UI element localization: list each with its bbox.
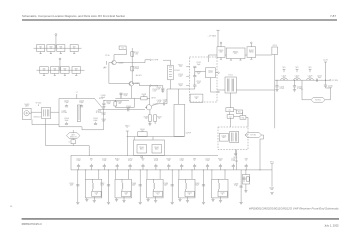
- wire injection feed vertical: [274, 55, 276, 129]
- wire RF input to Q1421 base: [104, 99, 130, 101]
- wire FL1402 input: [177, 89, 179, 104]
- resistor R1601: [217, 47, 225, 58]
- crystal Y1511: [206, 68, 216, 78]
- svg-text:45.1: 45.1: [234, 53, 237, 55]
- svg-text:27pF: 27pF: [157, 89, 161, 91]
- ground C1461: [76, 201, 79, 203]
- ground CR1474: [187, 197, 189, 201]
- svg-text:150: 150: [179, 66, 182, 68]
- ground Q1431 emitter: [149, 121, 151, 123]
- capacitor C1409: [98, 109, 145, 111]
- node B+ stub 5T: [76, 94, 78, 99]
- svg-text:360: 360: [309, 77, 312, 79]
- svg-text:5T: 5T: [189, 194, 191, 196]
- svg-text:8pF: 8pF: [318, 77, 321, 79]
- wire bus to L1475: [211, 170, 213, 179]
- svg-text:T1511: T1511: [228, 75, 233, 77]
- filter FL1541: [230, 132, 239, 143]
- resistor R1426: [134, 97, 141, 99]
- svg-text:NP: NP: [195, 98, 197, 100]
- ground L1474 left: [179, 198, 181, 199]
- svg-text:5T: 5T: [91, 160, 93, 162]
- svg-text:B401: B401: [140, 148, 144, 150]
- transistor Q1422: [112, 60, 116, 64]
- svg-text:0.1uF: 0.1uF: [153, 90, 157, 92]
- svg-text:0.1uF: 0.1uF: [128, 160, 132, 162]
- svg-text:NP13: NP13: [273, 45, 277, 47]
- resonator section L1475: [212, 179, 229, 198]
- inductor L1474: [185, 179, 187, 183]
- svg-text:11: 11: [60, 48, 62, 50]
- wire injection to T1511: [236, 89, 274, 91]
- wire bias ticks: [133, 137, 135, 140]
- wire mixer cluster: [230, 102, 232, 108]
- svg-text:5T: 5T: [96, 194, 98, 196]
- ground M1585: [270, 192, 273, 194]
- ANT SWITCH callout: [66, 133, 80, 139]
- bias network module outline: [134, 140, 165, 156]
- net RX INJ callout right: [311, 97, 325, 102]
- wire bus to L1473: [146, 170, 148, 179]
- shield SH1104: [70, 45, 78, 52]
- svg-text:15pF: 15pF: [179, 85, 183, 87]
- header rule: [22, 19, 337, 21]
- wire J1401 shell ground: [31, 120, 33, 125]
- transistor Q1421: [129, 81, 134, 86]
- svg-text:R41: R41: [238, 112, 241, 114]
- wire FL1401 input: [170, 60, 172, 65]
- ground mixer: [235, 150, 237, 154]
- wire shield row A: [34, 47, 82, 49]
- ground L1475 left: [212, 198, 214, 199]
- svg-text:NIB10: NIB10: [249, 52, 254, 54]
- resistor R1444: [138, 132, 147, 136]
- svg-text:1K: 1K: [143, 95, 145, 97]
- varactor CR1474: [185, 191, 194, 196]
- RX front-end matching network outline: [59, 99, 104, 130]
- node junction diamond: [301, 88, 303, 90]
- net RX INJ callout mixer: [245, 132, 262, 137]
- resistor R1542: [240, 116, 246, 120]
- svg-text:ANT: ANT: [25, 105, 28, 108]
- ground CR1475: [220, 197, 222, 201]
- svg-text:8.2pF: 8.2pF: [79, 102, 83, 104]
- capacitor C1542: [227, 115, 234, 119]
- wire Q1431 collector: [151, 104, 156, 106]
- svg-text:L2: L2: [69, 142, 71, 144]
- wire Q1421 emitter: [130, 86, 132, 98]
- svg-text:15pF: 15pF: [197, 83, 201, 85]
- svg-text:470: 470: [118, 103, 121, 105]
- capacitor C1541: [226, 108, 234, 112]
- svg-text:0.1uF: 0.1uF: [77, 160, 81, 162]
- svg-text:NIB: NIB: [271, 189, 274, 191]
- svg-text:47pF: 47pF: [102, 121, 106, 123]
- capacitor C1414: [119, 46, 126, 50]
- rail Q1421 collector: [149, 86, 151, 105]
- svg-text:5T: 5T: [142, 160, 144, 162]
- wire Q1431 output to FL: [166, 89, 168, 104]
- svg-text:5T: 5T: [222, 194, 224, 196]
- node stub above L1571: [283, 69, 285, 72]
- connector pin P1441: [141, 156, 143, 158]
- svg-text:5T: 5T: [194, 160, 196, 162]
- capacitor C1461: [77, 170, 79, 202]
- wire injection row: [225, 54, 226, 56]
- node E1601: [220, 44, 222, 47]
- wire emitter network: [115, 106, 134, 108]
- svg-text:27pF: 27pF: [124, 95, 128, 97]
- capacitor C1423: [131, 66, 134, 71]
- wire FL1401 output: [170, 80, 172, 89]
- svg-text:12: 12: [64, 70, 66, 72]
- svg-text:7.5pF: 7.5pF: [163, 101, 167, 103]
- capacitor C1583: [240, 170, 242, 202]
- resistor R1432: [154, 115, 157, 122]
- resistor R1431: [149, 110, 151, 115]
- svg-text:470pF: 470pF: [134, 68, 139, 70]
- svg-text:C14: C14: [121, 48, 124, 50]
- wire Q1422 base down: [109, 62, 112, 64]
- svg-text:7.5pF: 7.5pF: [64, 102, 68, 104]
- svg-text:0.1uF: 0.1uF: [206, 160, 210, 162]
- svg-text:DMG4017: DMG4017: [34, 117, 41, 119]
- wire CR1473 right: [159, 170, 161, 179]
- svg-text:0.1uF: 0.1uF: [102, 160, 106, 162]
- shield box Y1511 area: [190, 57, 218, 102]
- svg-text:5T: 5T: [126, 127, 128, 129]
- svg-text:1pF: 1pF: [197, 73, 200, 75]
- capacitor C1430: [163, 102, 165, 105]
- resistor R1603: [272, 47, 278, 55]
- svg-text:Q1421: Q1421: [135, 82, 140, 84]
- shield SH1107: [61, 67, 69, 74]
- node ANT_B stub with connector E1102: [59, 60, 61, 70]
- inductor L1472: [121, 179, 123, 183]
- ground L1472 left: [116, 198, 118, 199]
- shield SH1101: [37, 45, 45, 52]
- wire matching network to ANT SWITCH: [72, 130, 74, 133]
- node ANT_A stub with connector E1101: [55, 36, 57, 49]
- svg-text:C42: C42: [229, 116, 232, 118]
- inductor L1473: [153, 179, 155, 183]
- shield SH1103: [57, 45, 65, 52]
- svg-text:33pF: 33pF: [70, 185, 74, 187]
- svg-text:33pF: 33pF: [195, 185, 199, 187]
- wire Q1421 base wire: [109, 82, 129, 84]
- mixer U1541: [219, 133, 228, 141]
- wire callout left: [302, 99, 311, 101]
- svg-text:5T: 5T: [157, 194, 159, 196]
- wire T1511 secondary down: [230, 93, 232, 102]
- capacitor C1575 series: [316, 79, 318, 82]
- wire D1401 ground return: [45, 119, 47, 146]
- svg-text:0.1uF: 0.1uF: [231, 160, 235, 162]
- svg-text:360: 360: [283, 77, 286, 79]
- inductor L1572: [294, 78, 301, 80]
- svg-text:0.1uF: 0.1uF: [180, 160, 184, 162]
- wire shield row B: [37, 69, 85, 71]
- svg-text:68P81076C25-O: 68P81076C25-O: [22, 222, 42, 226]
- inductor L1475: [218, 179, 220, 183]
- wire L1581 to ground: [245, 184, 247, 190]
- node NP16 stub: [236, 150, 238, 170]
- svg-text:39pF: 39pF: [65, 120, 69, 122]
- svg-text:51K: 51K: [219, 160, 222, 162]
- svg-text:B402: B402: [155, 148, 159, 150]
- ground R1602: [250, 57, 252, 59]
- svg-text:7-87: 7-87: [330, 14, 336, 18]
- shield SH1105: [40, 67, 48, 74]
- svg-text:33pF: 33pF: [132, 185, 136, 187]
- capacitor C1420: [120, 93, 122, 99]
- svg-text:12: 12: [54, 70, 56, 72]
- resonator section L1473: [147, 179, 164, 198]
- wire riser to preselector bus: [88, 146, 90, 156]
- ground CR1471: [93, 197, 95, 201]
- svg-text:5T: 5T: [76, 92, 78, 94]
- ground L1473 left: [147, 198, 149, 199]
- svg-text:15pF: 15pF: [197, 64, 201, 66]
- varactor CR1473: [153, 191, 162, 196]
- svg-text:5T: 5T: [245, 160, 247, 162]
- inductor L1402: [77, 105, 80, 122]
- resistor R1421: [131, 52, 134, 57]
- wire CR1474 right: [191, 170, 193, 179]
- svg-text:July 1, 2002: July 1, 2002: [324, 224, 339, 228]
- capacitor C1463: [139, 170, 141, 202]
- shield SH1108: [72, 67, 80, 74]
- resonator section L1471: [85, 179, 102, 198]
- shield SH1106: [51, 67, 59, 74]
- wire varactor bias feed: [127, 136, 184, 138]
- wire callout to LO net: [262, 134, 264, 136]
- net port 2 diamond: [218, 91, 220, 93]
- capacitor C1465: [203, 170, 205, 202]
- ground CR1472: [123, 197, 125, 201]
- resonator section L1474: [179, 179, 196, 198]
- svg-text:FL1401: FL1401: [175, 70, 181, 72]
- svg-text:47pF: 47pF: [157, 102, 161, 104]
- wire Q1422 to net: [116, 62, 145, 64]
- wire top injection input: [209, 54, 218, 56]
- wire LO chain: [275, 79, 330, 81]
- resistor R1441: [137, 145, 147, 154]
- svg-text:SWITCH: SWITCH: [70, 136, 77, 138]
- svg-text:TO 9PH: TO 9PH: [152, 60, 159, 62]
- wire injection bottom: [259, 139, 261, 170]
- wire callout right: [325, 99, 331, 101]
- wire Q1431 base: [145, 106, 146, 108]
- ground C1464: [171, 201, 174, 203]
- capacitor C1573: [276, 79, 279, 82]
- capacitor C1464: [171, 170, 173, 202]
- inductor L1571: [281, 78, 288, 80]
- svg-text:B4: B4: [141, 130, 143, 132]
- svg-text:0.1uF: 0.1uF: [297, 88, 301, 90]
- ground C1463: [139, 201, 142, 203]
- svg-text:TO 9PH: TO 9PH: [332, 80, 339, 82]
- ground FL1601 stubs: [230, 59, 232, 61]
- ground L1471 left: [86, 198, 88, 199]
- resistor R1416: [114, 100, 116, 101]
- wire J1401 to D1401: [31, 111, 41, 113]
- svg-text:51K: 51K: [116, 160, 119, 162]
- wire shield left connections: [186, 66, 189, 68]
- svg-text:RX INJ: RX INJ: [315, 100, 321, 102]
- svg-text:0.1uF: 0.1uF: [280, 88, 284, 90]
- wire D1401 to matching network: [51, 111, 60, 113]
- svg-text:360: 360: [296, 77, 299, 79]
- svg-text:11: 11: [40, 48, 42, 50]
- wire T1511 left: [217, 89, 225, 91]
- wire Q1422 collector up: [113, 55, 115, 61]
- wire mixer to callout: [245, 134, 248, 136]
- ground L1581: [244, 190, 247, 192]
- wire ANT SWITCH to L1405: [72, 138, 74, 139]
- svg-text:12: 12: [43, 70, 45, 72]
- svg-text:1K: 1K: [158, 118, 160, 120]
- wire bus to L1472: [114, 170, 116, 179]
- wire CR1471 right: [98, 170, 100, 179]
- svg-text:47pF: 47pF: [127, 108, 131, 110]
- svg-text:11: 11: [50, 48, 52, 50]
- ground C1465: [202, 201, 205, 203]
- diode D1401 DMG4017 module: [42, 107, 51, 118]
- net TO 9PH upper: [150, 59, 152, 61]
- svg-text:NP10: NP10: [270, 162, 274, 164]
- wire bias rail to Q1421 collector: [132, 83, 133, 85]
- svg-text:33pF: 33pF: [164, 185, 168, 187]
- svg-text:27pF: 27pF: [234, 185, 238, 187]
- wire bus to L1471: [85, 170, 87, 179]
- wire CR1475 right: [224, 170, 226, 179]
- capacitor C1574: [293, 79, 296, 82]
- svg-text:150: 150: [145, 118, 148, 120]
- svg-text:27pF: 27pF: [107, 103, 111, 105]
- net TO 9PH right: [329, 79, 331, 81]
- node NP10 stub: [271, 164, 273, 187]
- ground C1583: [239, 201, 242, 203]
- node stub above L1572: [296, 69, 298, 72]
- svg-text:C41: C41: [228, 110, 231, 112]
- svg-text:6.8pF: 6.8pF: [93, 120, 97, 122]
- shield box mixer: [218, 127, 248, 150]
- svg-text:RX INJ: RX INJ: [250, 135, 256, 137]
- svg-text:5T9 B+: 5T9 B+: [105, 55, 110, 57]
- svg-text:11.11nH: 11.11nH: [61, 112, 68, 114]
- capacitor C1416: [102, 99, 105, 102]
- varactor CR1472: [122, 191, 131, 196]
- svg-text:R42: R42: [242, 117, 245, 119]
- wire bus to L1474: [178, 170, 180, 179]
- resonator section L1472: [115, 179, 132, 198]
- shield box FL1402: [174, 104, 185, 136]
- svg-text:NP5: NP5: [308, 67, 311, 69]
- node stub above L1573: [309, 69, 311, 72]
- bias rail: [131, 48, 133, 84]
- resistor R1541: [236, 110, 242, 113]
- node A+ stub: [325, 62, 327, 80]
- wire L1405 return to J1401: [72, 144, 74, 146]
- ground CR1473: [155, 197, 157, 201]
- node NP9 stub: [106, 61, 108, 65]
- inductor L1573: [307, 78, 314, 80]
- svg-text:9.1pF: 9.1pF: [102, 114, 106, 116]
- capacitor C1462: [108, 170, 110, 202]
- varactor CR1471: [92, 191, 101, 196]
- ground C1462: [107, 201, 110, 203]
- svg-text:NP1401: NP1401: [36, 103, 42, 105]
- wire filter internal: [194, 67, 196, 75]
- node NP1G stub: [126, 131, 128, 156]
- node E1602: [250, 44, 252, 47]
- resistor R1442: [152, 145, 162, 154]
- svg-text:8.2pF: 8.2pF: [178, 76, 182, 78]
- svg-text:NP5: NP5: [295, 67, 298, 69]
- svg-text:NIB: NIB: [220, 52, 223, 54]
- wire Q1421 collector right: [134, 83, 140, 85]
- svg-text:5T: 5T: [125, 194, 127, 196]
- capacitor C1428: [150, 85, 163, 87]
- svg-text:12: 12: [75, 70, 77, 72]
- wire net stub vertical: [217, 30, 219, 47]
- varactor CR1475: [218, 191, 227, 196]
- footer rule: [22, 218, 339, 220]
- svg-text:NP5: NP5: [282, 67, 285, 69]
- svg-text:HPD8001G/8002G/8011G/8012G VH: HPD8001G/8002G/8011G/8012G VHF Receiver …: [249, 206, 339, 210]
- net TO 9PH mid: [150, 85, 152, 87]
- resistor R1602: [247, 47, 256, 58]
- inductor L1581 module: [242, 175, 250, 184]
- transistor Q1431: [146, 105, 151, 110]
- capacitor C1576: [324, 79, 327, 82]
- svg-text:Schematics, Component Location: Schematics, Component Location Diagrams,…: [22, 14, 126, 18]
- svg-text:→ 4P 4B13: → 4P 4B13: [207, 36, 216, 38]
- svg-text:51K: 51K: [167, 160, 170, 162]
- filter FL1401: [168, 65, 174, 80]
- inductor L1471: [91, 179, 93, 183]
- svg-text:Q 4P1F: Q 4P1F: [186, 132, 192, 134]
- svg-text:33pF: 33pF: [100, 185, 104, 187]
- filter FL1601: [226, 48, 245, 59]
- net port 1 diamond: [218, 72, 220, 74]
- svg-text:0.1uF: 0.1uF: [154, 160, 158, 162]
- svg-text:6.8pF: 6.8pF: [101, 97, 105, 99]
- inductor L1405: [71, 140, 75, 144]
- shield SH1102: [47, 45, 55, 52]
- inner box L1511: [190, 94, 203, 102]
- preselector bus outline: [71, 154, 218, 156]
- wire CR1472 right: [128, 170, 130, 179]
- svg-text:11: 11: [73, 48, 75, 50]
- ground R1601: [220, 57, 222, 59]
